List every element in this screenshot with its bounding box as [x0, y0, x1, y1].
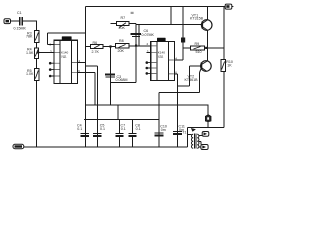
- svg-text:1.0K: 1.0K: [26, 72, 34, 76]
- svg-text:KT361B: KT361B: [185, 78, 199, 82]
- svg-text:T1: T1: [182, 130, 186, 134]
- svg-text:1.5K: 1.5K: [26, 51, 34, 55]
- svg-text:R6: R6: [93, 41, 98, 45]
- svg-text:0.068M: 0.068M: [116, 78, 128, 82]
- svg-text:78K: 78K: [26, 35, 33, 39]
- svg-text:R8: R8: [119, 39, 124, 43]
- svg-text:0.1: 0.1: [77, 127, 82, 131]
- svg-text:0.15MK: 0.15MK: [14, 26, 27, 30]
- svg-text:R9: R9: [195, 42, 200, 46]
- svg-text:УД1: УД1: [61, 55, 67, 59]
- svg-text:1K: 1K: [227, 64, 232, 68]
- svg-text:0.1: 0.1: [100, 127, 105, 131]
- svg-text:2.7K: 2.7K: [92, 50, 100, 54]
- svg-text:KT315B: KT315B: [190, 16, 204, 20]
- svg-text:510: 510: [196, 50, 202, 54]
- svg-text:C1: C1: [17, 11, 22, 15]
- svg-text:R7: R7: [121, 16, 126, 20]
- svg-text:0.1: 0.1: [121, 127, 126, 131]
- svg-text:0m: 0m: [161, 128, 166, 132]
- svg-text:0.07MK: 0.07MK: [142, 33, 155, 37]
- svg-text:0.1: 0.1: [136, 127, 141, 131]
- svg-text:УД1: УД1: [158, 55, 164, 59]
- svg-text:20K: 20K: [119, 26, 126, 30]
- svg-text:20K: 20K: [118, 49, 125, 53]
